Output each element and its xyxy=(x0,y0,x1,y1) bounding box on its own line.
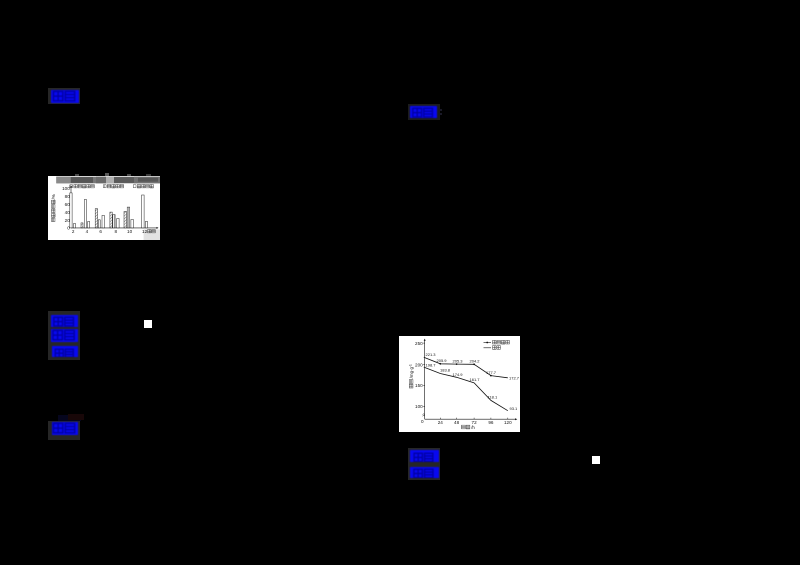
svg-text:198.7: 198.7 xyxy=(426,363,437,368)
svg-text:250: 250 xyxy=(415,341,423,346)
svg-text:2: 2 xyxy=(72,229,75,234)
svg-text:150: 150 xyxy=(415,383,423,388)
svg-text:93.1: 93.1 xyxy=(510,406,519,411)
svg-text:118.1: 118.1 xyxy=(488,395,498,400)
svg-text:100: 100 xyxy=(62,186,70,191)
svg-text:0: 0 xyxy=(421,419,424,424)
svg-text:80: 80 xyxy=(65,193,71,198)
svg-text:24: 24 xyxy=(438,420,444,425)
svg-text:/%: /% xyxy=(51,194,56,199)
svg-text:177.7: 177.7 xyxy=(486,370,497,375)
svg-text:200: 200 xyxy=(415,362,423,367)
svg-text:8: 8 xyxy=(115,229,118,234)
svg-text:120: 120 xyxy=(504,420,512,425)
svg-text:/h: /h xyxy=(471,425,475,430)
svg-text:6: 6 xyxy=(99,229,102,234)
svg-text:205.9: 205.9 xyxy=(437,358,448,363)
svg-text:12: 12 xyxy=(142,229,148,234)
svg-text:183.8: 183.8 xyxy=(440,368,451,373)
svg-text:172.7: 172.7 xyxy=(509,376,520,381)
svg-text:100: 100 xyxy=(415,404,423,409)
svg-text:40: 40 xyxy=(65,209,71,214)
svg-text:204.2: 204.2 xyxy=(470,359,481,364)
svg-text:161.7: 161.7 xyxy=(470,377,481,382)
svg-text:221.3: 221.3 xyxy=(426,352,437,357)
svg-text:48: 48 xyxy=(454,420,460,425)
svg-text:20: 20 xyxy=(65,217,71,222)
svg-text:96: 96 xyxy=(488,420,494,425)
svg-text:174.9: 174.9 xyxy=(453,372,464,377)
svg-text:10: 10 xyxy=(127,229,133,234)
svg-text:/mg·g-1: /mg·g-1 xyxy=(409,364,414,378)
svg-text:60: 60 xyxy=(65,201,71,206)
svg-text:4: 4 xyxy=(86,229,89,234)
svg-text:205.3: 205.3 xyxy=(453,358,464,363)
